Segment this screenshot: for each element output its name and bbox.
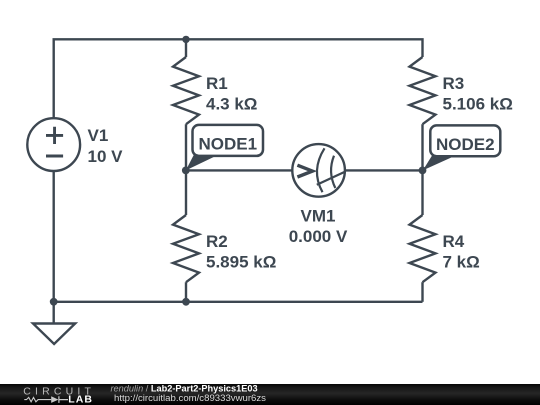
svg-text:VM1: VM1 — [301, 207, 336, 226]
wire bottom rail — [54, 301, 423, 303]
voltage source V1 — [27, 118, 80, 171]
svg-text:4.3 kΩ: 4.3 kΩ — [206, 95, 257, 114]
svg-text:R2: R2 — [206, 232, 228, 251]
svg-text:5.106 kΩ: 5.106 kΩ — [443, 95, 513, 114]
logo resistor squiggle — [24, 397, 51, 401]
wire ground stub — [53, 302, 55, 324]
wire R1 bottom to NODE1 junction — [185, 124, 187, 170]
svg-text:7 kΩ: 7 kΩ — [443, 253, 480, 272]
voltmeter VM1 — [292, 144, 345, 197]
junction dot R2 bottom — [182, 298, 190, 306]
wire NODE2 junction to R4 top — [421, 170, 423, 215]
svg-text:5.895 kΩ: 5.895 kΩ — [206, 253, 276, 272]
junction dot ground — [50, 298, 58, 306]
resistor R4 — [410, 215, 436, 282]
resistor R2 — [173, 215, 199, 282]
node NODE1 flag — [186, 125, 263, 170]
footer bar — [0, 384, 540, 405]
wire top rail from V1 to R3 top — [54, 39, 423, 118]
resistor R1 — [173, 57, 199, 124]
svg-text:NODE2: NODE2 — [436, 135, 495, 154]
wire R2 bottom to bottom rail — [185, 282, 187, 302]
wire NODE1 junction to R2 top — [185, 170, 187, 215]
node NODE2 flag — [423, 125, 501, 170]
svg-text:10 V: 10 V — [88, 147, 124, 166]
svg-text:R4: R4 — [443, 232, 465, 251]
svg-text:R3: R3 — [443, 74, 465, 93]
logo diode — [51, 396, 58, 403]
svg-text:0.000 V: 0.000 V — [289, 227, 348, 246]
svg-text:http://circuitlab.com/c89333vw: http://circuitlab.com/c89333vwur6zs — [114, 393, 266, 404]
wire R4 bottom to bottom right corner — [421, 282, 423, 302]
node A: NODE1 junction dot — [182, 167, 190, 175]
resistor R3 — [410, 57, 436, 124]
wire R3 bottom to NODE2 junction — [421, 124, 423, 170]
junction dot top (R1 to top rail) — [182, 36, 189, 43]
svg-text:NODE1: NODE1 — [199, 134, 258, 153]
wire NODE1 to voltmeter left — [186, 169, 292, 171]
node B: NODE2 junction dot — [419, 167, 427, 175]
svg-text:V1: V1 — [88, 126, 109, 145]
ground symbol — [33, 324, 75, 345]
svg-text:LAB: LAB — [68, 393, 93, 405]
svg-text:R1: R1 — [206, 74, 228, 93]
wire voltmeter right to NODE2 — [345, 169, 423, 171]
wire top stub into R1 — [185, 39, 187, 57]
wire V1 bottom to ground junction — [53, 171, 55, 302]
